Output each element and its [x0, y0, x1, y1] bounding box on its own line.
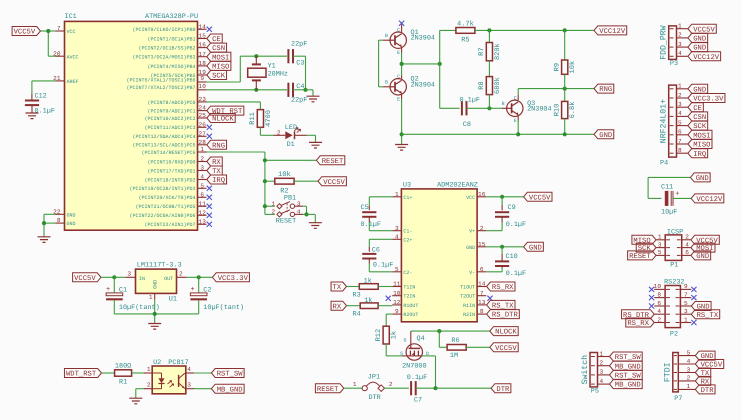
wire RNG to label [565, 88, 594, 90]
U3 pin 16 VCC [466, 191, 486, 201]
wire opto pin2 to ground [136, 389, 152, 399]
svg-text:T2OUT: T2OUT [460, 294, 475, 300]
P3 pin 2 GND [670, 32, 708, 44]
power flag VCC5V at R6 [490, 343, 518, 353]
svg-text:B: B [385, 80, 388, 86]
svg-text:1k: 1k [364, 278, 372, 286]
wire Q1 base to Q2 base [379, 40, 390, 87]
node GND junction [42, 221, 46, 225]
optocoupler U2 PC817 [147, 359, 191, 394]
svg-text:RST_SW: RST_SW [217, 371, 244, 379]
P2 pins 4/3 [621, 308, 719, 320]
node RNG junction [563, 87, 567, 91]
svg-text:T2IN: T2IN [403, 294, 415, 300]
U3 pin 2 V+ [469, 225, 486, 235]
svg-text:P3: P3 [670, 60, 678, 68]
svg-text:NLOCK: NLOCK [495, 329, 517, 337]
svg-text:RESET: RESET [276, 217, 296, 225]
svg-text:IC1: IC1 [65, 13, 77, 21]
capacitor C7 0.1uF [407, 374, 427, 404]
svg-text:0.1µF: 0.1µF [460, 96, 480, 104]
svg-text:3: 3 [127, 270, 131, 277]
svg-text:2N3904: 2N3904 [527, 106, 551, 114]
wire PB7 to crystal bottom [207, 89, 288, 91]
svg-text:R8: R8 [478, 81, 486, 89]
transistor Q4 2N7000 MOSFET [400, 335, 429, 371]
IC1 pin 11 PD5 [135, 200, 211, 210]
U3 pin 7 T2OUT [460, 290, 486, 300]
svg-text:2: 2 [147, 382, 151, 389]
svg-text:3: 3 [658, 241, 662, 248]
P2 pins 2/1 [626, 316, 697, 328]
svg-text:4.7k: 4.7k [457, 19, 474, 28]
svg-text:R10: R10 [554, 104, 562, 117]
svg-text:10k: 10k [278, 170, 291, 179]
svg-text:0.1µF: 0.1µF [506, 221, 526, 229]
IC1 pin 24 PC1 [147, 105, 243, 116]
jumper JP1 [353, 373, 385, 402]
svg-text:680k: 680k [493, 77, 502, 94]
IC1 pin 13 PD7 [144, 218, 211, 228]
wire R3 to T1IN [378, 286, 392, 288]
svg-text:10k: 10k [568, 61, 577, 74]
svg-text:3: 3 [687, 366, 691, 373]
svg-text:IN: IN [139, 276, 145, 282]
wire Q2 emitter down [401, 94, 403, 135]
wire C8 to R8 bottom and Q3 base [467, 107, 503, 109]
svg-text:GND: GND [153, 280, 159, 289]
svg-text:2: 2 [685, 234, 689, 241]
power flag VCC5V (IC1 supply) [12, 27, 40, 37]
svg-text:U1: U1 [169, 295, 177, 303]
svg-text:C11: C11 [661, 184, 673, 192]
svg-text:NRF24L01+: NRF24L01+ [660, 99, 669, 143]
node Q1Q2 junction [400, 62, 404, 66]
svg-text:1: 1 [687, 383, 691, 390]
svg-text:IRQ: IRQ [693, 151, 706, 159]
wire PB1 to ground [307, 214, 316, 222]
svg-text:5: 5 [678, 119, 682, 126]
svg-text:6: 6 [685, 249, 689, 256]
label NLOCK at Q4 [490, 327, 518, 337]
svg-text:22pF: 22pF [291, 97, 307, 105]
IC1 pin 1 PC6 [141, 146, 206, 156]
resistor R6 1M [447, 337, 466, 360]
svg-text:(PCINT18/INT0)PD2: (PCINT18/INT0)PD2 [144, 177, 195, 183]
power flag VCC5V at U3 [524, 192, 552, 202]
resistor R1 180R [115, 363, 132, 387]
svg-text:RS_RX: RS_RX [492, 284, 514, 292]
svg-text:R12: R12 [375, 329, 383, 342]
svg-text:1: 1 [272, 201, 276, 208]
P1 pins 1/2 [632, 234, 719, 246]
svg-text:5: 5 [687, 349, 691, 356]
push button PB1 RESET [265, 194, 307, 225]
label RS_TX [487, 300, 515, 310]
IC U3 ADM202EANZ body [401, 181, 477, 321]
capacitor C6 0.1uF [362, 239, 393, 271]
resistor R12 1k [375, 326, 399, 344]
svg-text:B: B [502, 101, 505, 107]
svg-text:C1-: C1- [403, 229, 412, 235]
label DTR [491, 384, 511, 394]
svg-text:G: G [403, 337, 406, 343]
svg-text:U3: U3 [403, 181, 411, 189]
label GND at C11 [690, 173, 710, 183]
svg-text:P2: P2 [670, 330, 678, 338]
power flag VCC12V [594, 26, 627, 36]
svg-text:4: 4 [678, 110, 682, 117]
wire TX to R3 [347, 286, 360, 288]
U3 pin 4 C2+ [392, 233, 412, 243]
P4 pin 2 VCC3.3V [670, 92, 725, 104]
label MB_GND [211, 384, 244, 394]
label RS_RX [487, 282, 515, 292]
svg-text:1: 1 [600, 350, 604, 357]
svg-text:2: 2 [687, 375, 691, 382]
node reset tee R2 [263, 179, 267, 183]
node VCC junction [46, 29, 50, 33]
IC1 pin 21 AREF [53, 75, 78, 85]
svg-text:R4: R4 [353, 311, 361, 319]
svg-text:GND: GND [696, 175, 709, 183]
svg-text:R1: R1 [119, 378, 127, 386]
svg-text:NLOCK: NLOCK [212, 116, 234, 124]
svg-text:0.1µF: 0.1µF [35, 108, 55, 116]
svg-text:RS232: RS232 [664, 279, 684, 287]
svg-text:C3: C3 [296, 59, 304, 67]
P5 pin 2 MB_GND [591, 360, 642, 372]
node C10 junction [500, 245, 504, 249]
svg-text:WDT_RST: WDT_RST [66, 371, 97, 379]
svg-text:27: 27 [199, 130, 207, 137]
svg-text:4: 4 [600, 378, 604, 385]
svg-text:3: 3 [678, 101, 682, 108]
svg-text:8: 8 [657, 291, 661, 298]
svg-text:(PCINT11/ADC3)PC3: (PCINT11/ADC3)PC3 [144, 125, 195, 131]
wire R5 to VCC12V rail [475, 29, 594, 31]
svg-text:R11: R11 [249, 112, 257, 125]
svg-text:C9: C9 [508, 204, 516, 212]
crystal Y1 20MHz [248, 56, 288, 90]
svg-text:R3: R3 [353, 291, 361, 299]
svg-text:2: 2 [272, 209, 276, 216]
svg-text:9: 9 [395, 308, 399, 315]
svg-text:RNG: RNG [599, 86, 612, 94]
svg-text:PB1: PB1 [284, 194, 296, 202]
svg-text:C: C [514, 95, 517, 101]
wire Q2 collector to node [401, 64, 403, 79]
wire Q1 emitter to node [401, 47, 403, 64]
svg-text:P5: P5 [591, 388, 599, 396]
svg-text:3: 3 [684, 308, 688, 315]
ground below C12 [26, 113, 39, 119]
svg-text:(PCINT21/OC0B/T1)PD5: (PCINT21/OC0B/T1)PD5 [135, 204, 195, 210]
wire opto pin4 to RST_SW [186, 372, 212, 374]
svg-text:P7: P7 [674, 395, 682, 403]
IC1 pin 19 PB5 [150, 69, 226, 80]
svg-text:6: 6 [480, 266, 484, 273]
wire PB6 to crystal top [207, 56, 288, 82]
wire to crystal ground [306, 90, 314, 96]
svg-text:MB_GND: MB_GND [217, 386, 243, 394]
svg-text:14: 14 [478, 281, 486, 288]
wire noise node horizontal [402, 63, 440, 65]
svg-text:26: 26 [199, 121, 207, 128]
svg-text:VCC3.3V: VCC3.3V [218, 275, 249, 283]
node C2 junction [197, 275, 201, 279]
svg-text:FTDI: FTDI [663, 362, 672, 382]
svg-text:10: 10 [393, 290, 401, 297]
svg-text:T1OUT: T1OUT [460, 285, 475, 291]
svg-text:1: 1 [149, 294, 153, 301]
svg-text:C: C [397, 74, 400, 80]
capacitor C9 0.1uF [486, 197, 526, 231]
P5 pin 1 RST_SW [591, 350, 642, 362]
U3 pin 6 V- [469, 266, 486, 276]
label RS_DTR [487, 310, 520, 320]
svg-text:R2OUT: R2OUT [403, 312, 418, 318]
P4 pin 8 IRQ [670, 147, 708, 159]
svg-text:13: 13 [478, 299, 486, 306]
ground opto [129, 398, 142, 404]
P3 pin 1 VCC5V [670, 23, 717, 35]
node R10 bottom gnd [563, 132, 567, 136]
svg-text:1M: 1M [450, 352, 458, 360]
svg-text:(PCINT13/SCL/ADC5)PC5: (PCINT13/SCL/ADC5)PC5 [132, 143, 195, 149]
svg-text:5: 5 [684, 300, 688, 307]
svg-text:C5: C5 [361, 204, 369, 212]
svg-text:20MHz: 20MHz [268, 71, 288, 79]
svg-text:2: 2 [389, 381, 393, 388]
label RST_SW [211, 369, 244, 379]
label RX at R4 [331, 301, 346, 311]
svg-text:GND: GND [697, 304, 710, 312]
svg-text:14: 14 [199, 23, 207, 30]
label RNG right [594, 84, 614, 94]
IC IC1 ATMEGA328P-PU body [65, 13, 199, 230]
wire PC0 to R11 [207, 102, 261, 110]
U3 pin 3 C1- [392, 225, 412, 235]
svg-text:VCC12V: VCC12V [693, 54, 720, 62]
svg-text:2N7000: 2N7000 [402, 363, 426, 371]
IC1 pin 9 PB6 [126, 75, 206, 83]
svg-text:6.8k: 6.8k [568, 102, 577, 119]
wire AREF to C12 [32, 81, 56, 101]
svg-text:4: 4 [395, 233, 399, 240]
svg-text:TX: TX [333, 284, 342, 292]
resistor R8 680k [478, 77, 502, 109]
capacitor C5 0.1uF [361, 197, 393, 231]
IC1 pin 22 GND [53, 208, 75, 218]
connector P4 NRF24L01+ [660, 85, 677, 167]
svg-text:7: 7 [684, 291, 688, 298]
wire OUT to VCC3.3V [187, 276, 213, 278]
svg-text:DTR: DTR [369, 394, 381, 402]
P1 pins 3/4 [636, 241, 715, 253]
svg-text:E: E [397, 50, 400, 56]
no-connect Q1 collector [399, 21, 404, 32]
connector P5 Switch [581, 353, 599, 396]
IC1 pin 5 PD3 [129, 182, 211, 192]
capacitor C3 22pF [288, 40, 307, 67]
svg-text:2: 2 [480, 225, 484, 232]
P4 pin 1 GND [670, 83, 708, 95]
svg-text:GND: GND [67, 221, 76, 227]
svg-text:C12: C12 [35, 92, 47, 100]
node riser junction [438, 62, 442, 66]
node reset tee 1 [263, 158, 267, 162]
P7 pin 2 RX [674, 375, 711, 387]
svg-text:VCC5V: VCC5V [323, 179, 345, 187]
svg-text:E: E [514, 118, 517, 124]
svg-text:P4: P4 [660, 159, 668, 167]
wire R2 to VCC5V [294, 180, 318, 182]
node R9 top [563, 28, 567, 32]
svg-text:11: 11 [199, 200, 207, 207]
svg-text:SCK: SCK [638, 245, 652, 253]
U3 pin 10 T2IN [392, 290, 415, 300]
svg-text:D1: D1 [287, 141, 295, 149]
svg-text:7: 7 [57, 25, 61, 32]
wire C12 to ground [31, 105, 33, 113]
wire gnd rail [402, 133, 594, 135]
svg-text:2: 2 [678, 92, 682, 99]
svg-text:PC817: PC817 [168, 359, 188, 367]
wire node to C8 [440, 64, 460, 108]
svg-text:1: 1 [395, 191, 399, 198]
svg-text:(PCINT2/OC1B/SS)PB2: (PCINT2/OC1B/SS)PB2 [138, 46, 195, 52]
IC1 pin 2 PD0 [147, 156, 222, 167]
capacitor C4 22pF [288, 83, 307, 105]
svg-text:R2IN: R2IN [463, 312, 475, 318]
svg-text:2: 2 [179, 270, 183, 277]
connector P3 FDD_PRW [660, 25, 679, 68]
svg-text:ADM202EANZ: ADM202EANZ [437, 181, 478, 189]
node DTR junction [433, 386, 437, 390]
IC1 pin 20 AVCC [53, 50, 78, 60]
svg-text:VCC5V: VCC5V [529, 194, 551, 202]
svg-text:GND: GND [529, 244, 542, 252]
U3 pin 13 R1IN [463, 299, 486, 309]
svg-text:4: 4 [687, 358, 691, 365]
wire GND row [486, 246, 523, 248]
svg-text:S: S [400, 351, 403, 357]
svg-text:AVCC: AVCC [67, 54, 79, 60]
P7 pin 3 TX [674, 366, 711, 378]
svg-text:9: 9 [684, 283, 688, 290]
resistor R10 6.8k [554, 89, 578, 135]
svg-text:24: 24 [199, 105, 207, 112]
svg-text:GND: GND [696, 253, 709, 261]
svg-text:820k: 820k [493, 43, 502, 60]
svg-text:VCC: VCC [67, 29, 76, 35]
wire to R2 [265, 180, 275, 182]
wire LED to ground [307, 135, 316, 142]
svg-text:(PCINT9/ADC1)PC1: (PCINT9/ADC1)PC1 [147, 109, 195, 115]
IC1 pin 3 PD1 [147, 165, 222, 176]
node C9 junction [500, 195, 504, 199]
svg-text:JP1: JP1 [368, 373, 380, 381]
svg-text:180Ω: 180Ω [115, 363, 131, 371]
no-connect U3 T2OUT [487, 296, 492, 301]
svg-text:R1OUT: R1OUT [403, 303, 418, 309]
svg-text:5: 5 [658, 249, 662, 256]
svg-text:4: 4 [685, 241, 689, 248]
wire C7 to DTR label [416, 387, 491, 389]
wire R6 to VCC5V [466, 346, 490, 348]
svg-text:1: 1 [353, 381, 357, 388]
svg-text:ICSP: ICSP [667, 228, 683, 236]
svg-text:1: 1 [200, 146, 204, 153]
svg-text:18: 18 [199, 60, 207, 67]
node crystal top junction [254, 54, 258, 58]
svg-text:(PCINT12/SDA/ADC4)PC4: (PCINT12/SDA/ADC4)PC4 [132, 134, 195, 140]
U3 pin 15 GND [466, 241, 486, 251]
svg-text:7: 7 [678, 138, 682, 145]
svg-text:E: E [397, 96, 400, 102]
connector P7 FTDI [663, 353, 682, 404]
svg-text:4: 4 [200, 174, 204, 181]
svg-text:RS_TX: RS_TX [697, 312, 719, 320]
LED D1 [273, 124, 306, 149]
svg-text:C8: C8 [463, 121, 471, 129]
IC1 pin 12 PD6 [129, 209, 211, 219]
svg-text:RS_RX: RS_RX [627, 320, 649, 328]
svg-text:0.1µF: 0.1µF [506, 270, 526, 278]
svg-text:C: C [397, 27, 400, 33]
ground crystal caps [307, 96, 320, 102]
svg-text:(PCINT19/OC2B/INT1)PD3: (PCINT19/OC2B/INT1)PD3 [129, 186, 195, 192]
U3 pin 11 T1IN [392, 281, 415, 291]
svg-text:(PCINT17/TXD)PD1: (PCINT17/TXD)PD1 [147, 168, 195, 174]
wire JP1 to C7 [384, 381, 409, 388]
svg-text:Q4: Q4 [417, 335, 425, 343]
svg-text:4: 4 [657, 308, 661, 315]
svg-text:C6: C6 [372, 246, 380, 254]
svg-text:T1IN: T1IN [403, 285, 415, 291]
svg-text:5: 5 [395, 266, 399, 273]
svg-text:28: 28 [199, 139, 207, 146]
wire PC6 reset net [207, 152, 317, 214]
svg-text:OUT: OUT [164, 276, 173, 282]
label GND right [594, 130, 614, 140]
wire IC1 GND pins [44, 214, 56, 237]
label RESET at JP1 [315, 384, 343, 394]
wire opto pin3 to MB_GND [186, 388, 212, 390]
svg-text:C10: C10 [506, 253, 518, 261]
svg-text:U2: U2 [153, 359, 161, 367]
capacitor C1 10uF tant [106, 277, 160, 314]
IC1 pin 17 PB3 [132, 51, 230, 62]
svg-text:R9: R9 [554, 63, 562, 71]
svg-text:16: 16 [478, 191, 486, 198]
capacitor C2 10uF tant [190, 277, 244, 314]
svg-text:8: 8 [678, 147, 682, 154]
P4 pin 5 SCK [670, 119, 708, 131]
svg-text:17: 17 [199, 51, 207, 58]
svg-text:VCC5V: VCC5V [74, 275, 96, 283]
svg-text:IRQ: IRQ [212, 177, 225, 185]
wire Q4 gate to NLOCK [411, 331, 490, 345]
U1 pin 1 GND [149, 293, 155, 300]
P5 pin 3 RST_SW [591, 369, 642, 381]
svg-text:RESET: RESET [322, 158, 344, 166]
svg-text:GND: GND [67, 212, 76, 218]
svg-text:B: B [385, 33, 388, 39]
svg-text:9: 9 [200, 75, 204, 82]
svg-text:(PCINT10/ADC2)PC2: (PCINT10/ADC2)PC2 [144, 116, 195, 122]
